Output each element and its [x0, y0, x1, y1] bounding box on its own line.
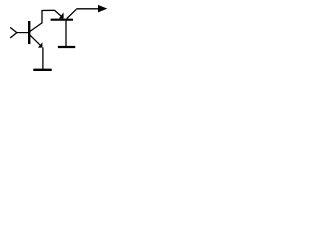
- wire Q2 base vertical: [65, 21, 67, 47]
- wire Q1 emitter vertical: [42, 47, 44, 69]
- transistor Q1 base bar: [28, 21, 30, 44]
- ground bar right: [58, 46, 75, 48]
- wire Q1 collector vertical: [41, 11, 43, 24]
- ground bar left: [33, 69, 51, 71]
- transistor Q2 emitter diagonal: [55, 10, 62, 16]
- transistor Q1 emitter diagonal: [30, 35, 41, 46]
- transistor Q2 emitter arrowhead: [59, 12, 64, 18]
- input open arrowhead (signal in): [11, 28, 17, 38]
- wire top horizontal: [41, 9, 54, 11]
- wire base of Q1: [17, 32, 29, 34]
- transistor Q2 collector diagonal: [67, 9, 77, 18]
- transistor Q2 base bar: [51, 19, 73, 21]
- transistor Q1 collector diagonal: [30, 23, 42, 32]
- output arrowhead (signal out): [98, 5, 107, 12]
- transistor Q1 emitter arrowhead: [38, 42, 43, 47]
- wire output horizontal: [76, 8, 100, 10]
